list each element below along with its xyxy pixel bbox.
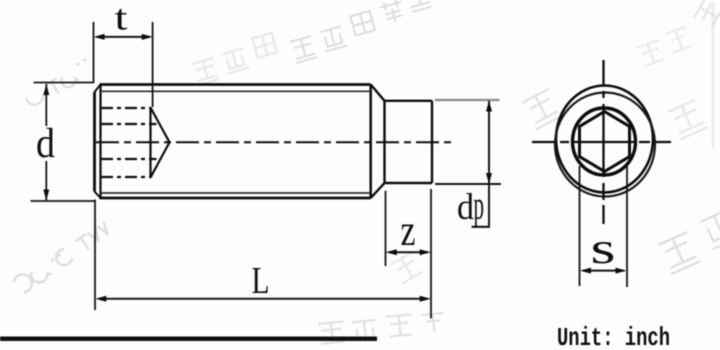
svg-text:d: d	[457, 187, 474, 228]
svg-text:t: t	[115, 0, 128, 38]
svg-text:s: s	[591, 224, 616, 273]
svg-text:z: z	[401, 206, 416, 255]
svg-text:d: d	[36, 121, 55, 167]
svg-text:L: L	[252, 260, 270, 302]
svg-text:p: p	[474, 183, 485, 228]
svg-text:Unit: inch: Unit: inch	[557, 323, 670, 350]
